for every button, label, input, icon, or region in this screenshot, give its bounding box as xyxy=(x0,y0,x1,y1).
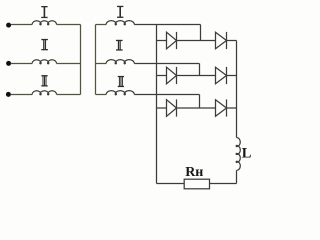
wire phase 3 secondary to bridge xyxy=(134,94,199,96)
wire diode row1 right xyxy=(227,40,237,42)
node A phase-1 primary terminal dot xyxy=(6,23,11,28)
wire diode row2 middle xyxy=(177,75,216,77)
resistor Rn box xyxy=(184,179,209,189)
wire phase 3 drop to diode row 3 xyxy=(199,95,201,109)
wire diode row2 left xyxy=(157,75,167,77)
wire diode row3 right xyxy=(227,107,237,109)
wire secondary row1 rail to coil xyxy=(96,24,107,26)
wire diode row1 middle xyxy=(177,40,216,42)
winding III secondary coil xyxy=(106,91,134,95)
label III secondary xyxy=(118,76,124,87)
winding II secondary coil xyxy=(106,60,134,64)
wire left anode rail xyxy=(156,25,158,184)
wire primary row3 coil to star rail xyxy=(57,94,81,96)
wire primary row2 dot to coil xyxy=(11,63,32,65)
diode D4 xyxy=(216,67,227,84)
diode D2 xyxy=(216,32,227,49)
diode D6 xyxy=(216,100,227,117)
wire primary row1 dot to coil xyxy=(11,24,32,26)
svg-text:L: L xyxy=(242,146,252,162)
label I primary xyxy=(41,6,47,18)
svg-text:Rн: Rн xyxy=(185,165,203,180)
wire secondary row3 rail to coil xyxy=(96,94,107,96)
wire primary row3 dot to coil xyxy=(11,94,32,96)
wire secondary row2 rail to coil xyxy=(96,63,107,65)
node B phase-2 primary terminal dot xyxy=(6,61,11,66)
wire primary star rail xyxy=(80,25,82,95)
winding I secondary coil xyxy=(106,21,134,25)
label II primary xyxy=(41,39,48,50)
node C phase-3 primary terminal dot xyxy=(6,92,11,97)
wire diode row1 left xyxy=(157,40,167,42)
wire right rail below inductor xyxy=(236,170,238,183)
wire phase 1 secondary to bridge xyxy=(134,24,200,26)
label II secondary xyxy=(116,40,123,51)
wire bottom right xyxy=(210,183,237,185)
label I secondary xyxy=(117,6,123,18)
label III primary xyxy=(41,75,47,86)
wire phase 2 drop to diode row 2 xyxy=(199,64,201,76)
wire right cathode rail xyxy=(236,41,238,138)
winding III primary coil xyxy=(32,91,56,95)
diode D3 xyxy=(167,67,177,84)
wire bottom left xyxy=(157,183,185,185)
diode D5 xyxy=(167,100,177,117)
winding II primary coil xyxy=(32,60,56,64)
wire secondary star rail xyxy=(95,25,97,95)
inductor L coil xyxy=(236,138,240,171)
wire primary row2 coil to star rail xyxy=(57,63,81,65)
wire diode row3 left xyxy=(157,107,167,109)
wire diode row3 middle xyxy=(177,107,216,109)
wire primary row1 coil to star rail xyxy=(57,24,81,26)
winding I primary coil xyxy=(32,21,56,25)
diode D1 xyxy=(167,32,177,49)
wire phase 1 drop to diode row 1 xyxy=(200,25,202,41)
wire diode row2 right xyxy=(227,75,237,77)
wire phase 2 secondary to bridge xyxy=(134,63,199,65)
